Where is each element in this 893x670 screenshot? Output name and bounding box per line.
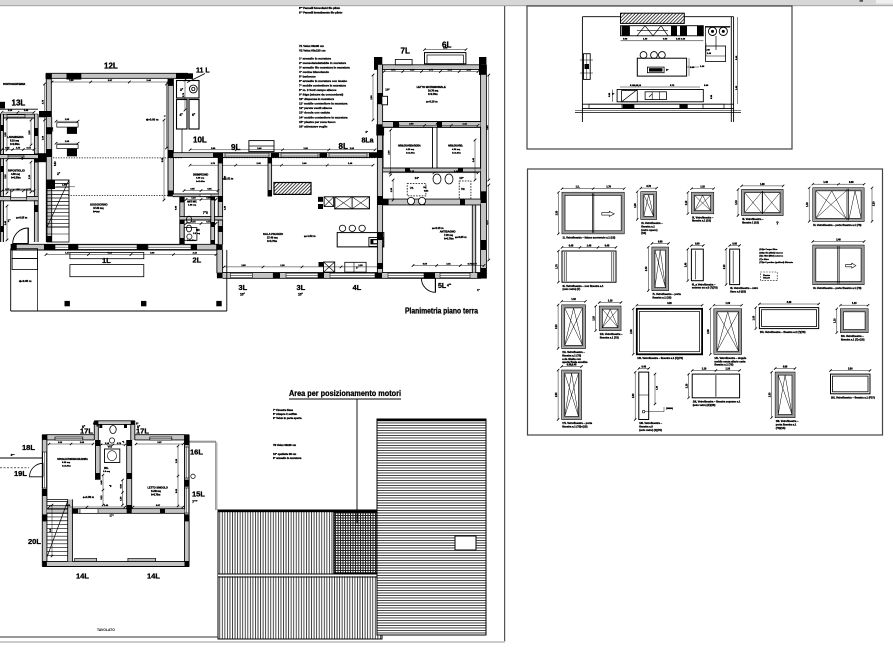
svg-text:4° cucina bilanciando: 4° cucina bilanciando — [299, 70, 329, 74]
svg-text:1L: 1L — [102, 256, 111, 265]
svg-text:16° attrezzare voglio: 16° attrezzare voglio — [299, 124, 328, 128]
svg-text:esterno su a.0 (7)(7S): esterno su a.0 (7)(7S) — [692, 286, 718, 290]
svg-text:11 L: 11 L — [196, 68, 210, 75]
svg-text:2.10: 2.10 — [874, 201, 876, 206]
svg-text:3L Vetrofinestra –: 3L Vetrofinestra – — [692, 215, 714, 219]
svg-text:Velux®: Velux® — [763, 277, 770, 280]
svg-text:6L Vetrofinestra – porta fine: 6L Vetrofinestra – porta finestra a.1 (7… — [813, 286, 861, 290]
svg-text:(7S)= il portico (pellicol) fi: (7S)= il portico (pellicol) filtrante — [759, 261, 793, 264]
svg-text:SPOGLIATOIO/GUAR.ROBA: SPOGLIATOIO/GUAR.ROBA — [57, 458, 88, 461]
svg-text:0.45: 0.45 — [569, 244, 574, 247]
svg-text:◆+0.05 m: ◆+0.05 m — [18, 279, 32, 283]
svg-text:1.10: 1.10 — [726, 303, 731, 305]
svg-text:9L Vetrofinestra – retro: 9L Vetrofinestra – retro — [730, 286, 758, 290]
svg-text:5.129,05,10: 5.129,05,10 — [630, 85, 642, 87]
svg-text:16L Vetrofinestra –: 16L Vetrofinestra – — [841, 334, 864, 338]
svg-text:16°: 16° — [385, 88, 390, 92]
svg-text:20L: 20L — [28, 537, 41, 546]
svg-text:0.45 1.00: 0.45 1.00 — [676, 38, 686, 41]
svg-text:8°°: 8°° — [11, 453, 15, 457]
svg-text:finestra a.1 (7S): finestra a.1 (7S) — [714, 363, 733, 367]
svg-text:1.10: 1.10 — [687, 383, 689, 388]
svg-text:0.70: 0.70 — [646, 186, 651, 188]
svg-text:a da ribalta con: a da ribalta con — [562, 357, 581, 361]
svg-text:◆+0.05 m: ◆+0.05 m — [15, 216, 28, 219]
svg-text:SOGGIORNO: SOGGIORNO — [90, 203, 108, 207]
svg-text:8La: 8La — [362, 138, 374, 145]
svg-text:DIS.: DIS. — [104, 468, 109, 470]
svg-text:1.90: 1.90 — [635, 203, 637, 208]
svg-text:◆+0.05 m: ◆+0.05 m — [454, 235, 467, 239]
svg-text:2.30: 2.30 — [633, 393, 635, 398]
svg-text:6L Vetrofinestra – non finest: 6L Vetrofinestra – non finestra a.1 — [563, 284, 604, 288]
svg-text:17L Vetrofinestra – porta: 17L Vetrofinestra – porta — [562, 421, 592, 425]
svg-text:5° barbecue: 5° barbecue — [299, 75, 316, 79]
svg-text:9° Velux in parte aperta: 9° Velux in parte aperta — [273, 416, 302, 420]
svg-text:(20MA): (20MA) — [666, 407, 673, 410]
svg-text:1.40: 1.40 — [823, 181, 828, 184]
svg-text:1.10: 1.10 — [726, 368, 731, 370]
svg-text:9.20 mq: 9.20 mq — [62, 462, 71, 464]
svg-text:1.2,: 1.2, — [576, 187, 580, 189]
svg-text:SALA PRANZO: SALA PRANZO — [263, 232, 284, 236]
svg-text:1.10: 1.10 — [700, 187, 705, 189]
svg-text:0.80,0.45: 0.80,0.45 — [567, 363, 577, 366]
svg-text:(solo vetro) (7): (solo vetro) (7) — [563, 287, 581, 291]
svg-text:4.90 mq: 4.90 mq — [196, 177, 205, 180]
svg-text:0.60: 0.60 — [695, 243, 700, 245]
svg-text:11° mobile contenitore in mura: 11° mobile contenitore in muratura — [299, 102, 348, 106]
svg-text:V0 Velux 90x90 cm: V0 Velux 90x90 cm — [273, 443, 297, 447]
svg-text:7° mobile contenitore in murat: 7° mobile contenitore in muratura — [299, 84, 346, 88]
svg-text:1.40: 1.40 — [587, 244, 592, 247]
svg-text:14L: 14L — [76, 572, 89, 581]
svg-text:2.00: 2.00 — [848, 368, 853, 370]
svg-text:18L Vetrofinestra –: 18L Vetrofinestra – — [639, 421, 662, 425]
svg-text:0.60: 0.60 — [849, 182, 854, 184]
svg-text:2.40: 2.40 — [645, 266, 648, 271]
svg-text:10L: 10L — [193, 136, 207, 145]
svg-text:LETTO MATRIMONIALE: LETTO MATRIMONIALE — [417, 85, 446, 89]
svg-text:1.70: 1.70 — [606, 187, 611, 189]
svg-text:0.80: 0.80 — [783, 366, 788, 368]
svg-text:11L Vetrofinestra –: 11L Vetrofinestra – — [562, 350, 585, 354]
svg-text:10° dispensa in muratura: 10° dispensa in muratura — [299, 97, 334, 101]
svg-text:h=2.40m: h=2.40m — [196, 180, 205, 183]
svg-text:ANTI WC: ANTI WC — [187, 201, 197, 204]
svg-text:2L Vetrofinestra –: 2L Vetrofinestra – — [641, 221, 663, 225]
svg-text:1.40: 1.40 — [685, 262, 688, 267]
svg-text:2.0 mq: 2.0 mq — [103, 471, 111, 473]
svg-text:8° m. 2 fosti campo allacce: 8° m. 2 fosti campo allacce — [299, 88, 337, 92]
svg-text:12L Vetrofinestra –: 12L Vetrofinestra – — [600, 332, 623, 336]
svg-text:ARM.GUARD.: ARM.GUARD. — [448, 145, 463, 148]
svg-text:3.20: 3.20 — [667, 303, 672, 305]
svg-text:8° Alzapre il soffitto: 8° Alzapre il soffitto — [273, 412, 298, 416]
svg-text:finestra 1 (1S): finestra 1 (1S) — [742, 221, 759, 225]
svg-text:19L Vetrofinestra – finestra: 19L Vetrofinestra – finestra soprano a.1 — [693, 399, 741, 403]
svg-text:V2 Velux 60x120 cm: V2 Velux 60x120 cm — [299, 49, 326, 53]
svg-text:(vetro opaco): (vetro opaco) — [641, 228, 657, 232]
svg-text:h=2.50m: h=2.50m — [10, 143, 20, 146]
svg-text:finestra a.1: finestra a.1 — [641, 224, 655, 228]
svg-text:6° armadio in muratura con lav: 6° armadio in muratura con lavabo — [299, 79, 347, 83]
svg-text:0.80: 0.80 — [658, 241, 663, 243]
svg-text:(7)= filtro: (7)= filtro — [759, 258, 769, 261]
svg-text:1.80 mq: 1.80 mq — [188, 205, 197, 207]
svg-text:2.10: 2.10 — [724, 264, 726, 269]
svg-text:10°: 10° — [298, 292, 304, 296]
svg-text:h=2.70m: h=2.70m — [428, 93, 438, 96]
svg-text:h=2.70m: h=2.70m — [267, 240, 278, 243]
svg-text:◆+0.00 m: ◆+0.00 m — [145, 118, 159, 122]
svg-text:0.70,0.70: 0.70,0.70 — [468, 264, 478, 266]
svg-text:4°°: 4°° — [447, 284, 452, 288]
svg-text:h=2.50m: h=2.50m — [11, 176, 21, 179]
svg-text:2.30: 2.30 — [556, 210, 558, 215]
svg-text:3.20: 3.20 — [787, 302, 792, 304]
svg-text:1.10: 1.10 — [608, 300, 613, 302]
svg-text:◆+1.52 m: ◆+1.52 m — [303, 234, 316, 238]
svg-text:7° Finestra fissa: 7° Finestra fissa — [273, 408, 293, 412]
svg-text:8°: 8° — [93, 422, 95, 426]
svg-text:TAVOLATO: TAVOLATO — [97, 628, 115, 632]
svg-text:h=2.70m: h=2.70m — [444, 237, 454, 240]
svg-text:1° armadio in muratura: 1° armadio in muratura — [299, 57, 331, 61]
svg-text:(solo vetro) (F)(2S): (solo vetro) (F)(2S) — [693, 403, 716, 407]
svg-text:10°: 10° — [423, 187, 426, 189]
svg-text:5.30: 5.30 — [55, 161, 57, 166]
svg-text:7°5: 7°5 — [203, 211, 208, 215]
svg-text:◆+0.15 m: ◆+0.15 m — [431, 226, 444, 230]
svg-text:ARM.GUARDAROBA: ARM.GUARDAROBA — [398, 145, 421, 148]
svg-text:2.30: 2.30 — [631, 329, 633, 334]
svg-text:1.10: 1.10 — [852, 303, 857, 305]
svg-text:(1S)= Corpo filtro: (1S)= Corpo filtro — [759, 248, 778, 251]
svg-text:h=var: h=var — [93, 210, 100, 213]
svg-text:◆+1.52 m: ◆+1.52 m — [221, 178, 234, 181]
svg-text:5°: 5° — [366, 130, 368, 134]
svg-text:0.60: 0.60 — [732, 243, 737, 245]
svg-text:ANTIBAGNO: ANTIBAGNO — [440, 230, 456, 234]
svg-text:16L: 16L — [190, 448, 203, 457]
svg-text:10° spallette 90 cm: 10° spallette 90 cm — [273, 452, 297, 456]
svg-text:15° piastre per zona fuoco: 15° piastre per zona fuoco — [299, 120, 336, 124]
svg-text:4L Vetrofinestra –: 4L Vetrofinestra – — [742, 217, 764, 221]
svg-text:finestra a.1 (1S): finestra a.1 (1S) — [652, 296, 671, 300]
svg-text:3L: 3L — [239, 283, 248, 292]
svg-text:13°: 13° — [459, 176, 464, 180]
svg-text:(1S): (1S) — [641, 231, 646, 235]
svg-text:2.10: 2.10 — [556, 324, 558, 329]
svg-text:V2: V2 — [461, 187, 465, 191]
svg-text:1.00: 1.00 — [754, 315, 756, 320]
svg-text:4L: 4L — [353, 283, 362, 292]
svg-text:5°: 5° — [666, 68, 668, 72]
svg-text:14.50 mq: 14.50 mq — [151, 490, 161, 493]
svg-text:2L: 2L — [193, 256, 202, 265]
svg-text:9° friga (misure da concordars: 9° friga (misure da concordarsi) — [299, 93, 343, 97]
svg-text:LETTO SINGOLO: LETTO SINGOLO — [148, 487, 168, 490]
svg-text:15L Vetrofinestra – finestra: 15L Vetrofinestra – finestra a.2 (7)(7S) — [760, 330, 806, 334]
svg-text:1.75: 1.75 — [556, 264, 558, 269]
svg-text:(solo vetro) (1)(7S): (solo vetro) (1)(7S) — [639, 428, 662, 432]
svg-text:9°° Pannelli investimento filo: 9°° Pannelli investimento filo plinto — [299, 11, 343, 15]
svg-text:finestra a.0: finestra a.0 — [639, 425, 653, 429]
svg-text:V1 Velux 90x90 cm: V1 Velux 90x90 cm — [299, 44, 324, 48]
svg-text:Planimetria piano terra: Planimetria piano terra — [405, 307, 479, 316]
svg-text:LAVANDERIA: LAVANDERIA — [7, 135, 24, 139]
svg-text:(S)= filtri (filtri) esterno: (S)= filtri (filtri) esterno — [759, 255, 783, 258]
svg-text:1.10: 1.10 — [702, 368, 707, 370]
svg-text:1.10: 1.10 — [835, 318, 837, 323]
svg-text:3L: 3L — [297, 283, 306, 292]
svg-text:0.45: 0.45 — [605, 244, 610, 247]
svg-text:7L Vetrofinestra – porta: 7L Vetrofinestra – porta — [652, 292, 681, 296]
svg-text:2.30: 2.30 — [770, 392, 772, 397]
svg-text:18L: 18L — [22, 443, 35, 452]
svg-text:◆+1.50 m: ◆+1.50 m — [82, 496, 95, 499]
svg-text:17°: 17° — [109, 514, 114, 518]
svg-text:RIPOSTIGLIO: RIPOSTIGLIO — [8, 169, 25, 173]
svg-text:13L Vetrofinestra – finestra: 13L Vetrofinestra – finestra a.1 (F)(7S) — [637, 356, 683, 360]
svg-text:0.40: 0.40 — [642, 365, 647, 368]
svg-text:6°: 6° — [97, 424, 99, 428]
svg-text:14L Vetrofinestra – doppia: 14L Vetrofinestra – doppia — [714, 356, 746, 360]
svg-text:19L: 19L — [14, 469, 27, 478]
svg-text:h=2.20m: h=2.20m — [62, 465, 71, 467]
svg-text:12L: 12L — [104, 62, 118, 71]
svg-text:10°: 10° — [240, 292, 246, 296]
svg-text:7L: 7L — [401, 47, 410, 56]
svg-text:V1: V1 — [410, 186, 414, 190]
svg-text:14° mobile contenitore in mura: 14° mobile contenitore in muratura — [299, 115, 348, 119]
svg-text:1.40: 1.40 — [806, 202, 809, 207]
svg-text:4.20 mq: 4.20 mq — [452, 148, 461, 151]
svg-text:DISIMPEGNO: DISIMPEGNO — [193, 174, 208, 177]
svg-text:finestra a.1 (1S): finestra a.1 (1S) — [692, 219, 711, 223]
svg-text:h=2.40m: h=2.40m — [406, 151, 415, 154]
svg-text:finestra a.1 (7S)+(1S): finestra a.1 (7S)+(1S) — [562, 425, 587, 429]
svg-text:porta finestra a.1: porta finestra a.1 — [776, 423, 797, 427]
svg-text:mobile senza allarte carta: mobile senza allarte carta — [714, 359, 746, 363]
svg-text:finestra a.1 (7)+(1S): finestra a.1 (7)+(1S) — [841, 338, 865, 342]
svg-text:2.40: 2.40 — [836, 238, 841, 241]
svg-text:(7S)(1S): (7S)(1S) — [776, 426, 786, 430]
svg-text:◆+0.15 m: ◆+0.15 m — [425, 100, 438, 104]
svg-text:5L: 5L — [438, 283, 447, 290]
svg-text:1.10: 1.10 — [571, 299, 576, 301]
svg-text:PORTICO/ANTENNA: PORTICO/ANTENNA — [3, 83, 26, 86]
svg-text:1.90: 1.90 — [62, 185, 67, 187]
svg-text:finestra a.1 (7S): finestra a.1 (7S) — [562, 353, 581, 357]
svg-text:8°° Pannelli fotovoltaici filo: 8°° Pannelli fotovoltaici filo plinto — [299, 6, 341, 10]
svg-text:13° doccia con caduta: 13° doccia con caduta — [299, 111, 330, 115]
svg-text:14L: 14L — [147, 572, 160, 581]
svg-text:?: ? — [776, 221, 779, 226]
svg-text:1.10: 1.10 — [594, 315, 596, 320]
svg-text:2.30: 2.30 — [556, 392, 558, 397]
svg-text:4.20 mq: 4.20 mq — [406, 148, 415, 151]
svg-text:12° parete vestii allacce: 12° parete vestii allacce — [299, 106, 332, 110]
svg-text:15L: 15L — [192, 490, 205, 499]
svg-text:2° mensola/adattabile in murat: 2° mensola/adattabile in muratura — [299, 61, 346, 65]
svg-text:3° armadio filo muratura in mu: 3° armadio filo muratura in muratura — [299, 66, 350, 70]
svg-text:h=2.40m: h=2.40m — [452, 151, 461, 154]
svg-text:Area per posizionamento motori: Area per posizionamento motori — [289, 388, 401, 398]
svg-text:1.60: 1.60 — [760, 184, 765, 186]
svg-text:fisso a.0 (2S): fisso a.0 (2S) — [730, 290, 746, 294]
svg-text:0° armadio in muratura: 0° armadio in muratura — [273, 456, 302, 460]
svg-text:Piastra: Piastra — [763, 274, 771, 277]
svg-text:(2S)= filo (filtri) interno: (2S)= filo (filtri) interno — [759, 251, 783, 254]
svg-text:13L: 13L — [12, 99, 26, 108]
svg-text:1.10: 1.10 — [736, 200, 738, 205]
svg-text:h=2.70m: h=2.70m — [151, 494, 160, 496]
svg-text:20L Vetrofinestra – finestra: 20L Vetrofinestra – finestra a.1 (F2?) — [831, 395, 875, 399]
svg-text:5L Vetrofinestra – porta fine: 5L Vetrofinestra – porta finestra a.1 (7… — [813, 223, 861, 227]
svg-text:14°: 14° — [415, 176, 420, 180]
svg-text:1L Vetrofinestra – falsos sco: 1L Vetrofinestra – falsos scorrevole a.1… — [563, 235, 616, 239]
svg-text:10L Vetrofinestra –: 10L Vetrofinestra – — [776, 419, 799, 423]
svg-text:7°°: 7°° — [192, 499, 198, 504]
svg-text:2.30: 2.30 — [708, 329, 710, 334]
svg-text:1.10: 1.10 — [686, 200, 688, 205]
svg-text:finestra a.1 (7S): finestra a.1 (7S) — [600, 336, 619, 340]
svg-text:8L.a Vetrofinestra –: 8L.a Vetrofinestra – — [692, 282, 716, 286]
